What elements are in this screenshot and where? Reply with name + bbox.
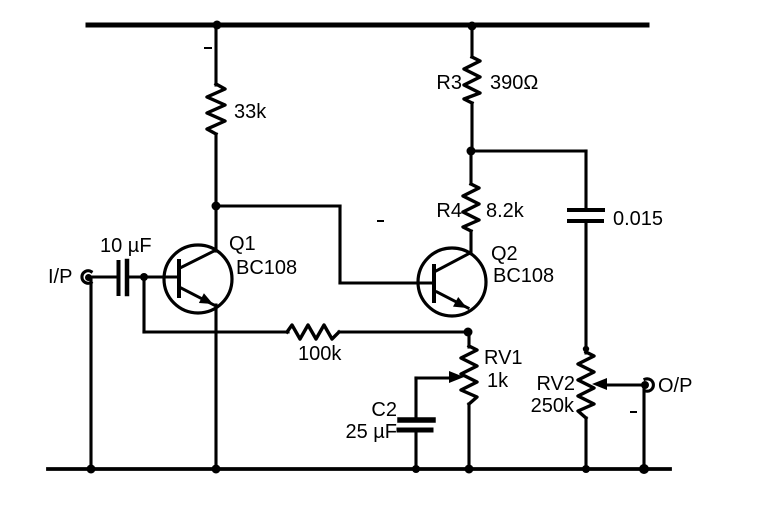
RV1 wiper arrow bbox=[416, 376, 450, 379]
wire Q2 emitter node to RV1 bbox=[467, 332, 470, 347]
junction dot I/P ground bbox=[87, 465, 96, 474]
wire node A to Q2 base (right segment) bbox=[216, 204, 340, 207]
wire 100k to Q2 emitter node bbox=[339, 330, 468, 333]
scan speck 2 bbox=[631, 411, 636, 413]
wire 33k to node A bbox=[214, 134, 217, 206]
wire 0.015 to RV2 bbox=[584, 222, 587, 353]
svg-text:8.2k: 8.2k bbox=[486, 200, 525, 222]
resistor 100k bbox=[287, 325, 339, 339]
wire RV2 to ground bbox=[584, 418, 587, 469]
blob dot at RV2 top bbox=[583, 346, 589, 352]
svg-text:100k: 100k bbox=[298, 343, 342, 365]
wire I/P down to ground bbox=[89, 279, 92, 469]
wire node A to Q2 base (down segment) bbox=[338, 206, 341, 283]
node A junction dot (Q1 collector node) bbox=[212, 202, 221, 211]
resistor R3 bbox=[464, 57, 480, 103]
svg-text:390Ω: 390Ω bbox=[490, 72, 538, 94]
wire R4 to node B bbox=[469, 151, 472, 184]
svg-text:RV1: RV1 bbox=[484, 347, 523, 369]
wire down to 0.015 cap bbox=[584, 151, 587, 209]
svg-text:Q1: Q1 bbox=[229, 233, 256, 255]
junction dot RV1 ground bbox=[465, 465, 474, 474]
svg-text:25 µF: 25 µF bbox=[345, 421, 397, 443]
transistor Q1 bbox=[164, 245, 232, 313]
junction dot RV2 ground bbox=[582, 465, 590, 473]
junction dot on top rail at R3 branch bbox=[468, 22, 477, 31]
junction dot on top rail at 33k branch bbox=[213, 21, 222, 30]
input terminal I/P bbox=[82, 271, 91, 283]
capacitor 10uF bbox=[117, 262, 121, 294]
svg-text:O/P: O/P bbox=[658, 375, 692, 397]
wire C2 to ground bbox=[414, 432, 417, 469]
junction dot Q2 emitter node bbox=[464, 328, 473, 337]
svg-text:BC108: BC108 bbox=[493, 265, 554, 287]
wire O/P down to ground bbox=[642, 387, 645, 469]
capacitor C2 bbox=[400, 417, 433, 423]
output terminal O/P bbox=[645, 379, 653, 391]
svg-text:RV2: RV2 bbox=[536, 373, 575, 395]
potentiometer RV1 body bbox=[461, 346, 477, 404]
svg-text:250k: 250k bbox=[531, 395, 575, 417]
potentiometer RV2 body bbox=[578, 352, 594, 418]
resistor R4 bbox=[463, 184, 479, 231]
wire node B to R3 bbox=[470, 103, 473, 151]
wire R3 to top rail bbox=[470, 25, 473, 57]
resistor 33k bbox=[207, 84, 225, 134]
wire Q2 collector to R4 bbox=[469, 231, 472, 253]
svg-text:1k: 1k bbox=[487, 370, 509, 392]
svg-text:C2: C2 bbox=[371, 399, 397, 421]
wire C1 to Q1 base bbox=[129, 275, 179, 278]
node B junction dot (R3/R4) bbox=[467, 147, 476, 156]
wire Q1 emitter to ground bbox=[214, 305, 217, 469]
svg-text:I/P: I/P bbox=[48, 266, 72, 288]
wire node A to Q2 base (right segment 2) bbox=[340, 281, 434, 284]
junction dot O/P ground bbox=[639, 464, 649, 474]
wire node A down to Q1 collector bbox=[214, 206, 217, 251]
svg-text:BC108: BC108 bbox=[236, 257, 297, 279]
wire node B right to 0.015 cap bbox=[471, 149, 586, 152]
junction dot Q1 emitter ground bbox=[212, 465, 221, 474]
feedback wire right to 100k bbox=[144, 330, 288, 333]
junction dot C2 ground bbox=[412, 465, 420, 473]
scan speck 3 bbox=[378, 220, 383, 222]
wire rail to 33k bbox=[214, 25, 217, 85]
RV2 wiper arrow bbox=[604, 383, 644, 386]
wire I/P to C1 bbox=[91, 275, 117, 278]
wire RV1 to ground bbox=[467, 404, 470, 469]
svg-text:33k: 33k bbox=[234, 101, 267, 123]
wire RV1 wiper down to C2 bbox=[414, 378, 417, 418]
svg-text:R3: R3 bbox=[436, 72, 462, 94]
svg-text:R4: R4 bbox=[436, 200, 462, 222]
top power rail bbox=[88, 23, 647, 28]
svg-text:0.015: 0.015 bbox=[613, 208, 663, 230]
feedback wire down from base node bbox=[142, 277, 145, 332]
capacitor 0.015 bbox=[569, 208, 603, 212]
transistor Q2 bbox=[418, 248, 486, 316]
svg-text:10 µF: 10 µF bbox=[100, 235, 152, 257]
ground rail bbox=[48, 467, 670, 471]
svg-text:Q2: Q2 bbox=[491, 243, 518, 265]
junction dot Q1 base node bbox=[140, 273, 148, 281]
scan speck 1 bbox=[205, 47, 211, 49]
